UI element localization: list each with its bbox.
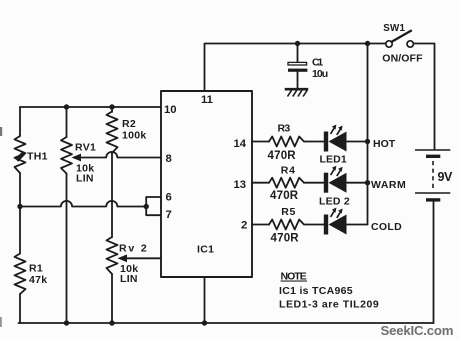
wire LED2 to rail bbox=[347, 182, 368, 184]
thermistor TH1 zigzag bbox=[15, 136, 26, 173]
svg-text:LIN: LIN bbox=[120, 273, 138, 285]
node dot bracket 6-7 bbox=[144, 204, 149, 209]
svg-text:8: 8 bbox=[166, 153, 172, 165]
svg-text:C1: C1 bbox=[312, 57, 324, 69]
switch SW1 bbox=[386, 30, 414, 47]
wire LED1 to rail bbox=[347, 141, 368, 143]
potentiometer RV2 zigzag bbox=[107, 237, 118, 274]
svg-text:LED 2: LED 2 bbox=[319, 196, 350, 208]
LED2 triangle bbox=[329, 173, 347, 193]
node dot bottom rail RV2 bbox=[109, 320, 114, 325]
wire TH1 column top bbox=[19, 107, 21, 136]
svg-text:LIN: LIN bbox=[76, 173, 94, 185]
LED3 emission arrows bbox=[331, 210, 341, 218]
ground symbol bbox=[285, 89, 309, 96]
capacitor C1 top plate bbox=[288, 62, 307, 65]
node dot HOT bbox=[365, 139, 370, 144]
svg-text:SeekIC.com: SeekIC.com bbox=[381, 323, 454, 338]
LED2 emission arrows bbox=[331, 168, 341, 176]
wire LED common rail bbox=[367, 44, 369, 225]
RV1 wiper arrow head bbox=[72, 154, 82, 162]
svg-text:Rv 2: Rv 2 bbox=[119, 243, 147, 255]
wire IC bottom pin bbox=[204, 277, 206, 323]
op-amp IC1 box bbox=[161, 91, 252, 277]
wire R4 to LED2 bbox=[304, 182, 324, 184]
LED3 cathode bar bbox=[324, 215, 328, 235]
resistor R2 zigzag bbox=[107, 112, 118, 154]
svg-text:NOTE: NOTE bbox=[281, 271, 308, 283]
resistor R5 zigzag bbox=[269, 220, 304, 230]
wire pins 6-7 tie bracket bbox=[146, 197, 161, 215]
svg-text:WARM: WARM bbox=[371, 179, 406, 191]
wire RV1 column top bbox=[66, 107, 68, 137]
svg-text:SW1: SW1 bbox=[383, 23, 405, 34]
thermistor TH1 mark bbox=[15, 152, 25, 162]
svg-text:R1: R1 bbox=[29, 263, 43, 275]
wire pin13 row left bbox=[252, 182, 269, 184]
resistor R4 zigzag bbox=[269, 178, 304, 188]
svg-text:47k: 47k bbox=[29, 274, 47, 286]
node dot top rail R2 bbox=[109, 104, 114, 109]
wire R2 bottom to RV2 top bbox=[111, 153, 113, 237]
resistor R1 zigzag bbox=[15, 254, 26, 295]
potentiometer RV1 zigzag bbox=[61, 137, 72, 174]
scan speck lower left edge bbox=[0, 317, 2, 327]
wire top supply rail bbox=[205, 44, 386, 92]
wire TH1 to mid rail bbox=[19, 173, 21, 254]
svg-text:R3: R3 bbox=[278, 123, 291, 135]
wire C1 bottom lead to ground bbox=[297, 72, 299, 89]
svg-text:R4: R4 bbox=[281, 165, 296, 177]
wire SW1 to battery corner bbox=[413, 44, 434, 150]
svg-text:470R: 470R bbox=[268, 150, 297, 162]
svg-text:14: 14 bbox=[234, 138, 247, 150]
svg-text:7: 7 bbox=[166, 209, 172, 221]
wire RV2 wiper to IC bbox=[123, 257, 161, 259]
LED1 emission arrows bbox=[331, 127, 341, 135]
scan speck left edge bbox=[0, 127, 2, 136]
svg-text:ON/OFF: ON/OFF bbox=[382, 53, 423, 65]
wire R1 to bottom rail bbox=[19, 294, 21, 323]
svg-text:9V: 9V bbox=[438, 170, 453, 184]
wire pin2 row left bbox=[252, 224, 269, 226]
LED2 cathode bar bbox=[324, 173, 328, 193]
wire pin8 from RV1 wiper with hop bbox=[75, 152, 161, 158]
svg-text:13: 13 bbox=[234, 179, 247, 191]
resistor R3 zigzag bbox=[269, 137, 304, 147]
svg-text:TH1: TH1 bbox=[27, 151, 48, 163]
wire R3 to LED1 bbox=[304, 141, 324, 143]
svg-text:RV1: RV1 bbox=[75, 142, 96, 154]
node dot TH1-R1 mid rail bbox=[17, 204, 22, 209]
node dot C1 at supply rail bbox=[295, 41, 300, 46]
wire pin10 rail bbox=[20, 106, 161, 108]
wire pin14 row left bbox=[252, 141, 269, 143]
svg-text:IC1: IC1 bbox=[197, 244, 214, 256]
node dot top rail RV1 bbox=[64, 104, 69, 109]
wire R2 column top bbox=[111, 107, 113, 112]
svg-text:10: 10 bbox=[164, 104, 177, 116]
wire LED3 to rail bbox=[347, 224, 368, 226]
node dot bottom rail IC bbox=[202, 320, 207, 325]
wire R5 to LED3 bbox=[304, 224, 324, 226]
node dot bottom rail RV1 bbox=[64, 320, 69, 325]
svg-text:470R: 470R bbox=[270, 190, 299, 202]
svg-text:6: 6 bbox=[166, 192, 172, 204]
svg-text:LED1-3 are TIL209: LED1-3 are TIL209 bbox=[279, 299, 379, 311]
wire battery bottom lead bbox=[433, 202, 435, 324]
wire RV2 bottom bbox=[111, 274, 113, 323]
svg-text:10u: 10u bbox=[312, 68, 329, 80]
svg-text:100k: 100k bbox=[122, 130, 147, 142]
battery B1 bbox=[415, 150, 450, 200]
svg-text:11: 11 bbox=[201, 94, 213, 106]
LED1 triangle bbox=[329, 132, 347, 152]
wire RV1 column bottom bbox=[66, 174, 68, 324]
svg-text:R2: R2 bbox=[122, 118, 136, 130]
wire bottom rail bbox=[19, 322, 434, 324]
svg-text:R5: R5 bbox=[281, 206, 296, 218]
RV2 wiper arrow head bbox=[118, 254, 128, 262]
wire C1 top lead bbox=[297, 44, 299, 63]
svg-text:HOT: HOT bbox=[373, 138, 396, 150]
svg-text:2: 2 bbox=[241, 220, 247, 232]
svg-text:IC1 is TCA965: IC1 is TCA965 bbox=[279, 285, 353, 297]
svg-text:LED1: LED1 bbox=[320, 154, 348, 166]
capacitor C1 bottom plate bbox=[288, 69, 307, 72]
LED3 triangle bbox=[329, 215, 347, 235]
node dot LED rail at supply rail bbox=[365, 41, 370, 46]
LED1 cathode bar bbox=[324, 132, 328, 152]
node dot WARM bbox=[365, 180, 370, 185]
svg-text:470R: 470R bbox=[271, 233, 300, 245]
svg-text:COLD: COLD bbox=[371, 221, 402, 233]
wire mid rail to pins 6/7 with hops bbox=[20, 201, 146, 207]
